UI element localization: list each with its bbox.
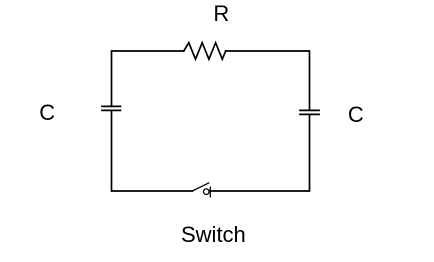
wire top-right segment (226, 51, 310, 110)
svg-text:C: C (348, 102, 364, 127)
svg-text:R: R (213, 1, 229, 26)
capacitor C-right (300, 110, 319, 114)
switch S1 lever (192, 183, 208, 191)
svg-text:C: C (39, 100, 55, 125)
wire top-left segment (112, 51, 184, 106)
wire right-bottom segment (210, 115, 309, 191)
switch S1 contact bar (209, 187, 211, 197)
svg-text:Switch: Switch (181, 222, 246, 247)
switch S1 contact circle (204, 189, 210, 195)
capacitor C-left (102, 106, 120, 110)
resistor R1 (184, 43, 226, 60)
wire left-bottom segment (112, 111, 193, 191)
